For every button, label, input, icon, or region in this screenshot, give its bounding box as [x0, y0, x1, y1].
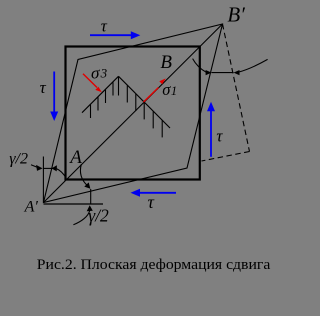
- sigma1 label: [162, 80, 177, 99]
- sigma1 principal stress arrow (red): [144, 78, 166, 102]
- gamma/2 top : right leader arc to square corner: [56, 169, 65, 178]
- angle annotation at B' : right arrowhead: [234, 70, 240, 75]
- svg-text:γ/2: γ/2: [88, 206, 109, 226]
- gamma/2 top : vertical reference line through A': [42, 157, 44, 203]
- gamma/2 top : leader arrowhead: [36, 165, 43, 171]
- svg-text:σ: σ: [162, 80, 171, 99]
- angle annotation at B' : right leader arc: [239, 59, 268, 72]
- svg-text:τ: τ: [148, 192, 155, 212]
- tau arrow top (blue): [90, 31, 140, 39]
- svg-text:1: 1: [171, 84, 177, 98]
- original square element ABCD: [66, 47, 200, 180]
- deformed parallelogram A'T'B'R': [44, 24, 223, 203]
- gamma/2 bottom : upper arrowhead: [84, 182, 90, 188]
- svg-text:B: B: [160, 52, 172, 73]
- tau arrow left (blue): [50, 72, 58, 122]
- tau arrow bottom (blue): [131, 189, 177, 197]
- gamma/2 top : inward arrowhead: [52, 165, 57, 171]
- dashed line lower corner to square edge: [202, 152, 250, 162]
- gamma/2 bottom : lower arrowhead: [87, 205, 93, 211]
- gamma/2 bottom : lower leader curve: [73, 211, 89, 225]
- angle annotation at B' : connector line: [212, 72, 234, 74]
- gamma/2 bottom : vertical connector: [90, 189, 92, 204]
- svg-text:τ: τ: [216, 127, 223, 146]
- tau arrow right (blue): [207, 102, 215, 157]
- hatch tick at peak: [118, 77, 120, 96]
- svg-text:Рис.2. Плоская деформация сдви: Рис.2. Плоская деформация сдвига: [37, 257, 271, 273]
- diagonal A'B': [44, 24, 223, 203]
- gamma/2 bottom : upper leader arc: [80, 164, 87, 186]
- hatched shear plane (right slope): [119, 76, 171, 128]
- angle annotation at B' : left arrowhead: [206, 70, 212, 75]
- svg-text:σ: σ: [91, 64, 100, 83]
- hatch ticks right group: [127, 86, 162, 138]
- svg-text:A: A: [68, 147, 82, 168]
- gamma/2 top : label leader line: [31, 165, 38, 168]
- hatched shear plane (left slope): [82, 76, 119, 112]
- horizontal reference line through A': [44, 203, 104, 205]
- svg-text:3: 3: [100, 65, 108, 80]
- svg-text:τ: τ: [40, 78, 47, 97]
- svg-text:τ: τ: [101, 16, 108, 35]
- svg-text:γ/2: γ/2: [9, 151, 28, 168]
- dashed line B' to lower corner: [223, 24, 250, 152]
- angle annotation at B' : left leader arc: [193, 59, 207, 73]
- gamma/2 top : connector: [43, 167, 53, 169]
- sigma3 principal stress arrow (red): [83, 74, 102, 93]
- svg-text:A′: A′: [24, 199, 39, 216]
- sigma3 label: [91, 64, 108, 83]
- svg-text:B′: B′: [227, 2, 245, 26]
- hatch ticks left group: [91, 82, 114, 118]
